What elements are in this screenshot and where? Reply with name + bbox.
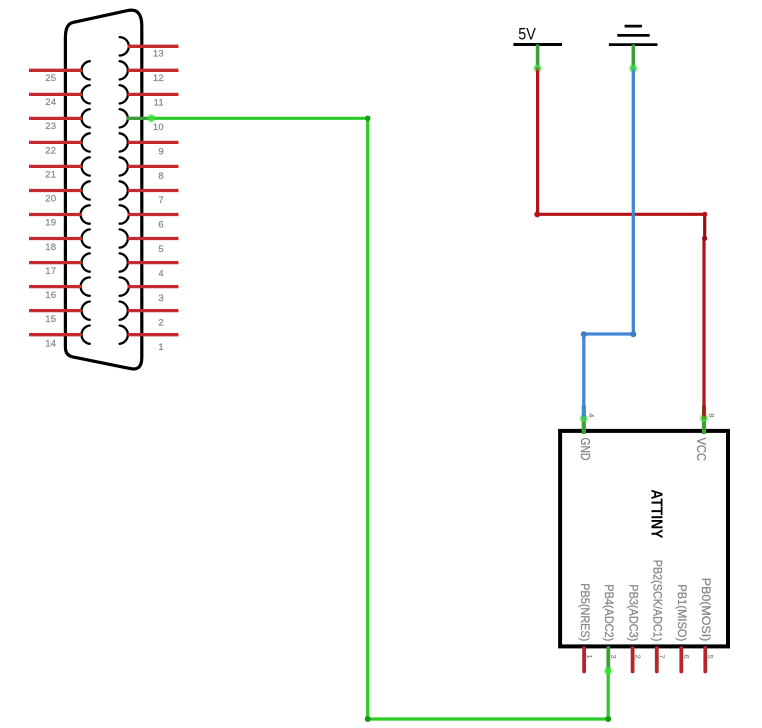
svg-text:21: 21: [45, 169, 56, 180]
svg-text:5: 5: [158, 244, 163, 255]
terminal dot ground halo: [629, 64, 638, 73]
DB25 pin 14 contact arc: [82, 326, 90, 344]
power symbol 5V bar: [513, 43, 562, 46]
pin 8 VCC stub: [702, 406, 706, 435]
svg-text:8: 8: [158, 171, 163, 182]
DB25 pin 18 lead: [29, 237, 82, 240]
DB25 pin 17 lead: [29, 261, 82, 264]
pin 7 PB2(SCK/ADC1) stub: [655, 648, 659, 672]
connector J1 DB25 body: [65, 10, 141, 369]
DB25 pin 11 contact arc: [120, 85, 128, 103]
DB25 pin 9 lead: [128, 141, 179, 144]
DB25 pin 1 contact arc: [120, 326, 128, 344]
terminal dot GND pin 4 halo: [579, 414, 588, 423]
IC U1 ATTINY body: [560, 431, 728, 647]
svg-text:1: 1: [158, 342, 163, 353]
svg-text:ATTINY: ATTINY: [647, 489, 664, 538]
DB25 pin 21 contact arc: [82, 157, 90, 175]
svg-text:13: 13: [153, 49, 164, 60]
DB25 pin 19 lead: [29, 213, 82, 216]
svg-text:11: 11: [154, 97, 164, 108]
DB25 pin 5 lead: [128, 237, 179, 240]
DB25 pin 23 contact arc: [82, 109, 90, 127]
DB25 pin 21 lead: [29, 165, 82, 168]
svg-text:4: 4: [158, 269, 163, 280]
DB25 pin 7 lead: [128, 189, 179, 192]
ground symbol bar 1: [625, 25, 642, 28]
pin 2 PB3(ADC3) stub: [631, 648, 635, 672]
DB25 pin 23 lead: [29, 117, 82, 120]
wire blue ground to GND pin 4: [584, 68, 634, 419]
svg-text:1: 1: [585, 655, 594, 659]
terminal dot DB25 pin 10 halo: [147, 114, 156, 123]
svg-text:GND: GND: [578, 438, 592, 461]
DB25 pin 9 contact arc: [120, 133, 128, 151]
DB25 pin 17 contact arc: [82, 253, 90, 271]
terminal tint ground: [631, 67, 635, 71]
DB25 pin 16 lead: [29, 285, 82, 288]
wire red overlap segment: [703, 214, 706, 238]
svg-text:PB0(MOSI): PB0(MOSI): [699, 578, 713, 642]
svg-text:PB5(NRES): PB5(NRES): [578, 583, 592, 641]
svg-text:24: 24: [45, 97, 56, 108]
terminal dot 5V halo: [533, 64, 542, 73]
terminal dot DB25 pin 10: [149, 115, 155, 121]
svg-text:19: 19: [45, 218, 56, 229]
terminal dot VCC pin 8 halo: [700, 414, 709, 423]
svg-text:6: 6: [158, 220, 163, 231]
corner dot red at (705,214): [702, 212, 707, 217]
DB25 pin 2 contact arc: [120, 302, 128, 320]
DB25 pin 22 contact arc: [82, 133, 90, 151]
svg-text:2: 2: [634, 655, 643, 659]
svg-text:2: 2: [158, 317, 163, 328]
DB25 pin 14 lead: [29, 333, 82, 336]
DB25 pin 10 connected lead: [126, 117, 151, 120]
pin 3 PB4(ADC2) stub (connected): [606, 648, 610, 672]
DB25 pin 5 contact arc: [120, 229, 128, 247]
DB25 pin 13 lead: [128, 45, 179, 48]
svg-text:PB1(MISO): PB1(MISO): [675, 584, 689, 641]
svg-text:17: 17: [45, 266, 56, 277]
svg-text:22: 22: [45, 145, 56, 156]
DB25 pin 3 contact arc: [120, 277, 129, 295]
DB25 pin 11 lead: [128, 93, 179, 96]
svg-text:16: 16: [45, 290, 56, 301]
svg-text:3: 3: [158, 293, 163, 304]
wire green pin 10 to PB4 pin 3: [151, 118, 608, 719]
svg-text:7: 7: [658, 655, 667, 659]
svg-text:18: 18: [45, 242, 56, 253]
DB25 pin 7 contact arc: [120, 181, 128, 199]
DB25 pin 6 lead: [128, 213, 179, 216]
pin 6 PB1(MISO) stub: [679, 648, 683, 672]
DB25 pin 18 contact arc: [82, 229, 90, 247]
DB25 pin 20 contact arc: [82, 181, 90, 199]
svg-text:12: 12: [153, 73, 164, 84]
DB25 pin 8 lead: [128, 165, 179, 168]
svg-text:20: 20: [45, 194, 56, 205]
power symbol 5V pin stub: [536, 45, 540, 69]
terminal dot PB4 pin 3: [605, 668, 611, 674]
terminal tint GND pin 4: [582, 416, 586, 420]
svg-text:3: 3: [609, 655, 618, 659]
DB25 pin 25 lead: [29, 69, 82, 72]
svg-text:14: 14: [45, 338, 56, 349]
DB25 pin 4 contact arc: [120, 253, 128, 271]
DB25 pin 2 lead: [128, 309, 179, 312]
svg-text:PB2(SCK/ADC1): PB2(SCK/ADC1): [651, 560, 665, 642]
terminal dot 5V: [535, 65, 541, 71]
DB25 pin 13 contact arc: [120, 37, 129, 55]
terminal dot VCC pin 8: [701, 415, 707, 421]
DB25 pin 19 contact arc: [81, 205, 90, 223]
pin 4 GND stub: [582, 406, 586, 435]
svg-text:8: 8: [707, 413, 716, 417]
corner dot blue at (633,334): [630, 331, 636, 337]
DB25 pin 15 contact arc: [82, 302, 90, 320]
svg-text:23: 23: [45, 121, 56, 132]
corner dot green at (608,719): [605, 716, 611, 722]
DB25 pin 6 contact arc: [120, 205, 129, 223]
corner dot green at (368,719): [365, 716, 371, 722]
pin 5 PB0(MOSI) stub: [703, 648, 707, 672]
pin 1 PB5(NRES) stub: [582, 648, 586, 672]
svg-text:10: 10: [153, 122, 164, 133]
DB25 pin 3 lead: [128, 285, 179, 288]
corner dot blue at (584,334): [581, 331, 587, 337]
svg-text:15: 15: [45, 314, 56, 325]
svg-text:25: 25: [45, 73, 56, 84]
terminal tint 5V: [535, 66, 539, 70]
terminal dot ground: [630, 66, 636, 72]
ground symbol bar 3: [609, 43, 658, 46]
DB25 pin 12 contact arc: [120, 61, 128, 79]
corner dot green at (368,118): [365, 116, 371, 122]
svg-text:5: 5: [706, 655, 715, 659]
terminal dot GND pin 4: [581, 416, 587, 422]
terminal tint VCC pin 8: [702, 416, 706, 420]
terminal dot PB4 pin 3 halo: [604, 666, 613, 675]
DB25 pin 15 lead: [29, 309, 82, 312]
svg-text:5V: 5V: [518, 25, 536, 43]
DB25 pin 24 lead: [29, 93, 82, 96]
svg-text:PB4(ADC2): PB4(ADC2): [602, 584, 616, 641]
DB25 pin 8 contact arc: [120, 157, 128, 175]
ground symbol bar 2: [617, 34, 649, 37]
DB25 pin 20 lead: [29, 189, 82, 192]
wire red to VCC pin 8: [702, 238, 705, 419]
DB25 pin 25 contact arc: [82, 61, 90, 79]
svg-text:9: 9: [158, 146, 163, 157]
DB25 pin 10 contact arc: [120, 109, 128, 127]
junction dot red at (705,238): [702, 236, 707, 241]
ground symbol pin stub: [631, 45, 635, 69]
junction dot red at (537,214): [534, 211, 540, 217]
DB25 pin 4 lead: [128, 261, 179, 264]
DB25 pin 1 lead: [128, 333, 179, 336]
svg-text:VCC: VCC: [694, 438, 708, 462]
wire red 5V to junction: [538, 68, 705, 215]
DB25 pin 24 contact arc: [82, 85, 90, 103]
svg-text:6: 6: [682, 655, 691, 659]
DB25 pin 22 lead: [29, 141, 82, 144]
svg-text:7: 7: [158, 195, 163, 206]
svg-text:PB3(ADC3): PB3(ADC3): [626, 584, 640, 641]
DB25 pin 16 contact arc: [81, 277, 90, 295]
svg-text:4: 4: [587, 413, 596, 417]
DB25 pin 12 lead: [128, 69, 179, 72]
